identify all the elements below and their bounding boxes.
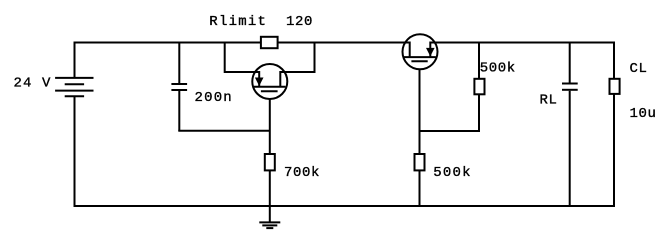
svg-text:Rlimit: Rlimit [209,14,267,30]
svg-text:500k: 500k [433,165,471,181]
svg-text:24 V: 24 V [14,75,52,91]
svg-text:CL: CL [630,61,648,77]
svg-text:200n: 200n [195,90,233,106]
svg-text:700k: 700k [284,165,320,181]
svg-text:120: 120 [286,14,313,30]
svg-text:10u: 10u [630,106,657,122]
svg-text:500k: 500k [480,60,516,76]
svg-text:RL: RL [540,93,558,109]
